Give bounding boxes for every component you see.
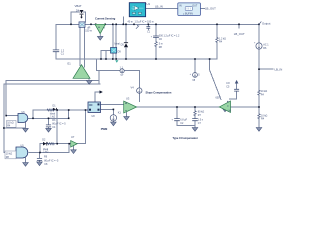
wire LB_IN stub — [259, 68, 273, 70]
buffer U7 triangle — [71, 135, 78, 147]
wire R5 branch — [216, 24, 218, 59]
wire C8 branch — [39, 153, 41, 162]
ground C4 — [46, 128, 52, 132]
wire U7 ground stub — [73, 146, 75, 150]
junction switch pin A top — [112, 24, 114, 26]
wire C2 branch — [177, 107, 195, 126]
wire U6 input — [6, 115, 18, 117]
gate U6 — [7, 111, 28, 127]
junction sense box right on VBAT rail — [90, 24, 92, 26]
svg-text:U7: U7 — [71, 135, 75, 139]
source I1 circle right rail — [254, 42, 269, 50]
ground U7 — [71, 150, 77, 154]
junction slope diagonal tap — [209, 58, 211, 60]
svg-text:Current Sensing: Current Sensing — [95, 16, 116, 20]
svg-text:600: 600 — [216, 97, 221, 100]
junction D5 branch bottom — [125, 58, 127, 60]
op-amp E1 triangle — [68, 62, 91, 79]
svg-text:PWM: PWM — [101, 127, 108, 131]
svg-text:LB_OUT: LB_OUT — [205, 7, 216, 11]
ground symbols — [23, 34, 262, 167]
svg-text:1 kΩ: 1 kΩ — [43, 150, 48, 153]
wire y72 run — [97, 70, 140, 72]
wire U7 feed riser — [56, 110, 58, 144]
junction U7 feed bottom — [56, 143, 58, 145]
junction feedback divider mid — [258, 106, 260, 108]
diode D4 — [80, 10, 84, 13]
source V7 circle — [120, 66, 125, 77]
op-amp CSA triangle — [95, 24, 105, 33]
svg-text:Ideal: Ideal — [115, 42, 121, 45]
wire U5b bypass D2 R9 — [40, 144, 69, 153]
svg-text:LB_IN: LB_IN — [275, 67, 283, 71]
junction CSA right input tap — [104, 24, 106, 26]
junction C6 branch bottom — [155, 58, 157, 60]
U1 current sense amp block — [129, 2, 150, 17]
wire U1 input drop — [122, 17, 124, 24]
U8 latch box — [88, 102, 101, 118]
capacitor C1 — [53, 50, 59, 52]
wire C6 ESR branch — [155, 24, 157, 59]
ground C8 — [37, 162, 43, 166]
wire kelvin pair to E1 — [80, 27, 84, 67]
wire C1 branch — [55, 24, 57, 59]
svg-text:E1: E1 — [68, 62, 72, 66]
junction CSA left input tap — [95, 24, 97, 26]
junction output corner — [258, 24, 260, 26]
junction switch pin A bottom — [112, 58, 114, 60]
svg-text:LB_IN: LB_IN — [155, 5, 163, 9]
capacitor hang2 — [146, 27, 150, 29]
wire rail A outer — [4, 84, 100, 153]
wire U3 ground stub — [126, 112, 128, 117]
junction D5 branch top — [125, 24, 127, 26]
junction U7 feed top — [56, 109, 58, 111]
ground K1 — [111, 122, 117, 126]
resistor R9 zigzag — [47, 143, 54, 145]
wire mid rail — [137, 106, 259, 108]
wire main top rail — [56, 23, 259, 25]
junction switch pin B bottom — [115, 58, 117, 60]
wire latch to K1 lower — [101, 108, 114, 110]
wire switch left stub — [101, 51, 111, 60]
junction rail gate ground wire — [3, 127, 5, 129]
junction U7 input node — [68, 143, 70, 145]
svg-text:LB_OUT: LB_OUT — [234, 32, 245, 36]
capacitor C7 — [192, 119, 198, 121]
wire D5 branch — [125, 24, 127, 59]
svg-text:150 m: 150 m — [85, 29, 92, 32]
wire LB block output stub — [200, 8, 205, 10]
junction bypass left drop — [32, 118, 34, 120]
wire V8 stub — [195, 59, 210, 72]
svg-text:1 kΩ: 1 kΩ — [50, 115, 55, 118]
ground CSA — [99, 34, 101, 37]
ground U3 — [124, 117, 130, 121]
svg-text:Output: Output — [262, 22, 271, 26]
capacitor C6 — [153, 36, 159, 38]
svg-text:Slope Compensation: Slope Compensation — [146, 90, 172, 94]
junction LB_OUT flag — [238, 24, 240, 26]
wire latch to U3 upper — [101, 104, 124, 106]
ground U6 gate — [23, 128, 29, 132]
junction switch pin B top — [115, 24, 117, 26]
ground right rail — [256, 128, 262, 132]
LB filter block — [178, 3, 201, 16]
junction rail to U6 input — [5, 115, 7, 117]
wire x99 riser — [98, 71, 100, 85]
ground C7 — [192, 128, 198, 132]
resistor R4 — [258, 90, 261, 95]
wire hysteresis cap arrow — [230, 84, 237, 99]
wire load hang 1 — [137, 24, 139, 25]
wire top loop with D4 — [71, 12, 86, 24]
wire U6 bypass D1 R3 — [33, 110, 88, 118]
junction bypass right drop — [68, 118, 70, 120]
wire C4 branch — [48, 118, 50, 128]
junction C2 tap — [176, 106, 178, 108]
svg-text:OUT: OUT — [192, 5, 198, 8]
latch set arrow head — [100, 90, 103, 93]
wire U5b input — [4, 152, 16, 154]
wire SW rail — [56, 58, 217, 60]
wire U1 output — [146, 8, 179, 10]
source K1 circle — [110, 110, 121, 121]
diode D2 — [43, 142, 46, 146]
junction V8 tap — [194, 58, 196, 60]
wire load hang 2 — [147, 24, 149, 30]
svg-text:40 m: 40 m — [128, 20, 133, 23]
junction SW node stub mid — [105, 58, 107, 60]
svg-text:VBAT: VBAT — [75, 4, 82, 8]
junction SW node stub left — [100, 58, 102, 60]
junction C4 tap — [48, 118, 50, 120]
capacitor C5 hysteresis — [234, 89, 239, 91]
resistor R5 — [216, 38, 219, 43]
wire U5 ground stub — [224, 107, 226, 108]
svg-text:Type II Compensator: Type II Compensator — [173, 136, 198, 140]
SW teal mark — [115, 60, 118, 63]
capacitor plates — [37, 27, 239, 161]
source V4 circle — [131, 86, 143, 94]
junction top loop left on VBAT rail — [70, 24, 72, 26]
resistor R6 — [258, 114, 261, 119]
wire U6 output — [28, 117, 69, 119]
wire right rail — [258, 24, 260, 127]
junction C6 branch top — [155, 24, 157, 26]
diode D5 — [124, 43, 128, 47]
wire rail B inner — [6, 81, 99, 116]
probe slash hang1 — [136, 26, 139, 29]
op-amp U5 error amp — [219, 101, 231, 113]
wire switch pins — [113, 24, 116, 59]
wire U5b gate bottom ground stub — [25, 158, 27, 163]
svg-text:≡ BUF/IN: ≡ BUF/IN — [183, 12, 193, 15]
gate U5b — [5, 144, 28, 159]
capacitor C8 — [37, 158, 42, 160]
junction K1 tap — [113, 109, 115, 111]
resistor R7 — [194, 111, 197, 116]
source V8 circle — [190, 73, 198, 78]
output corner flag — [259, 22, 261, 25]
svg-text:V4: V4 — [131, 86, 135, 90]
diode D1 — [53, 108, 56, 111]
junction D2 bypass drop — [39, 152, 41, 154]
ground E1 — [88, 78, 90, 80]
U9 switch box — [111, 48, 122, 54]
resistor R3 zigzag — [47, 109, 54, 111]
svg-text:U1: U1 — [147, 2, 151, 6]
junction latch input — [85, 109, 87, 111]
resistor boxes — [0, 0, 1, 1]
diodes black — [43, 10, 128, 146]
hysteresis up arrow head — [235, 80, 239, 84]
wire diagonal to error amp — [210, 70, 221, 100]
junction bypass top right — [68, 109, 70, 111]
op-amp input marks — [98, 27, 228, 111]
capacitor C4 — [46, 125, 51, 127]
svg-text:K1: K1 — [118, 110, 122, 114]
junction R7 C7 tap — [194, 106, 196, 108]
wire latch set arrow — [95, 92, 100, 102]
wire U7 output to latch riser — [77, 110, 85, 144]
svg-text:300 1.2 µF IC = 1.2: 300 1.2 µF IC = 1.2 — [159, 35, 180, 38]
junction — [133, 24, 135, 26]
wire U5b output — [29, 152, 69, 154]
wire R7 C7 branch — [194, 107, 196, 128]
junction R5 branch top — [216, 24, 218, 26]
wire V4 drop — [138, 71, 140, 102]
capacitor C2 — [174, 119, 180, 121]
ground U5b gate — [23, 163, 29, 167]
wire U6 gate bottom ground — [4, 123, 26, 129]
junction L1 tap — [148, 24, 150, 26]
svg-text:ON: ON — [89, 104, 93, 107]
junction U1 input tap — [123, 24, 125, 26]
ground U5 erramp — [222, 108, 228, 112]
svg-text:1.5 µF IC = 100 m: 1.5 µF IC = 100 m — [135, 20, 154, 23]
op-amp U3 pwm comparator — [124, 97, 137, 113]
wire LB_OUT stub — [238, 24, 240, 28]
svg-text:U3: U3 — [126, 97, 130, 101]
svg-text:80 pF IC = -5: 80 pF IC = -5 — [44, 159, 59, 162]
wire K1 drop — [112, 109, 114, 122]
wire x96.5 riser SW — [96, 59, 98, 71]
sense resistor box — [79, 22, 85, 27]
wire U7 input — [69, 143, 71, 145]
junction LB_IN tap — [258, 68, 260, 70]
svg-text:IN: IN — [179, 5, 182, 8]
resistor 5m ESR — [155, 42, 158, 47]
